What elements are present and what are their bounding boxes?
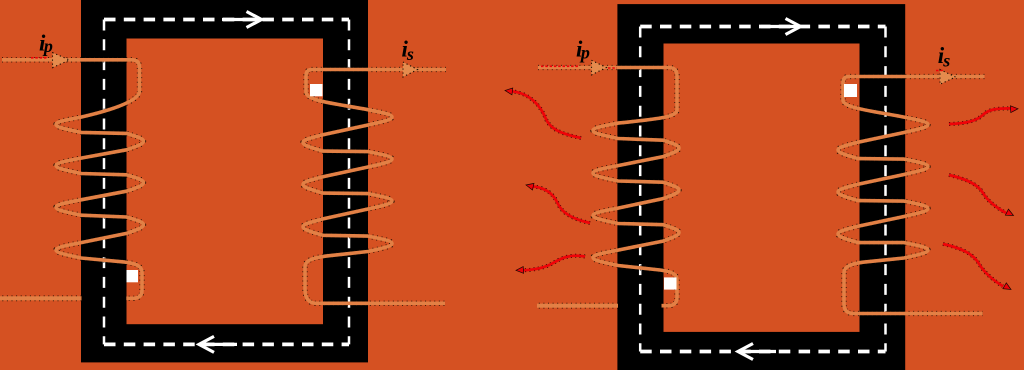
transformer core T1 (laminated iron core, left) bbox=[81, 0, 368, 362]
leakage flux arrow L1 (T2 upper-left) bbox=[505, 87, 581, 138]
flux path loop T1 (white dashed) bbox=[104, 20, 349, 345]
primary current arrowhead i_p T1 bbox=[53, 53, 70, 68]
secondary winding S2 coil (T2 right limb) bbox=[838, 77, 985, 314]
leakage flux arrow L3 (T2 lower-left) bbox=[516, 256, 585, 274]
flux arrow T1 bottom (leftward) bbox=[199, 336, 237, 352]
primary winding P2 coil (T2 left limb) bbox=[538, 68, 679, 306]
leakage flux arrow L6 (T2 lower-right) bbox=[943, 244, 1013, 292]
secondary current arrowhead i_s T2 bbox=[940, 70, 956, 85]
flux arrow T1 top (rightward) bbox=[222, 12, 262, 28]
primary bottom lead T2 (left of limb, into gap) bbox=[537, 303, 618, 309]
terminal marker square P1 (bottom of left limb) bbox=[127, 270, 139, 282]
leakage flux arrow L4 (T2 upper-right) bbox=[949, 105, 1018, 124]
red dotted marks on secondary lead T2 bbox=[936, 70, 944, 72]
leakage flux arrow L5 (T2 mid-right) bbox=[949, 175, 1015, 219]
primary winding P1 coil (T1 left limb) bbox=[2, 60, 144, 298]
terminal marker square S1 (top of right limb) bbox=[310, 84, 323, 96]
secondary winding S1 coil (T1 right limb) bbox=[303, 70, 446, 304]
flux arrow T2 top (rightward) bbox=[761, 19, 801, 35]
terminal marker square S2 (top of right limb) bbox=[844, 84, 857, 97]
primary bottom lead T1 (left of limb, to image edge) bbox=[0, 295, 82, 301]
flux arrow T2 bottom (leftward) bbox=[738, 344, 776, 360]
transformer core T2 (laminated iron core, right) bbox=[617, 4, 905, 370]
terminal marker square P2 (bottom of left limb) bbox=[664, 277, 677, 289]
leakage flux arrow L2 (T2 mid-left) bbox=[525, 182, 590, 223]
primary current arrowhead i_p T2 bbox=[592, 60, 607, 75]
flux path loop T2 (white dashed) bbox=[640, 27, 885, 352]
red dotted marks on primary lead T1 bbox=[31, 57, 48, 59]
red dotted marks on primary lead T2 bbox=[541, 65, 579, 67]
secondary current arrowhead i_s T1 bbox=[403, 62, 418, 77]
